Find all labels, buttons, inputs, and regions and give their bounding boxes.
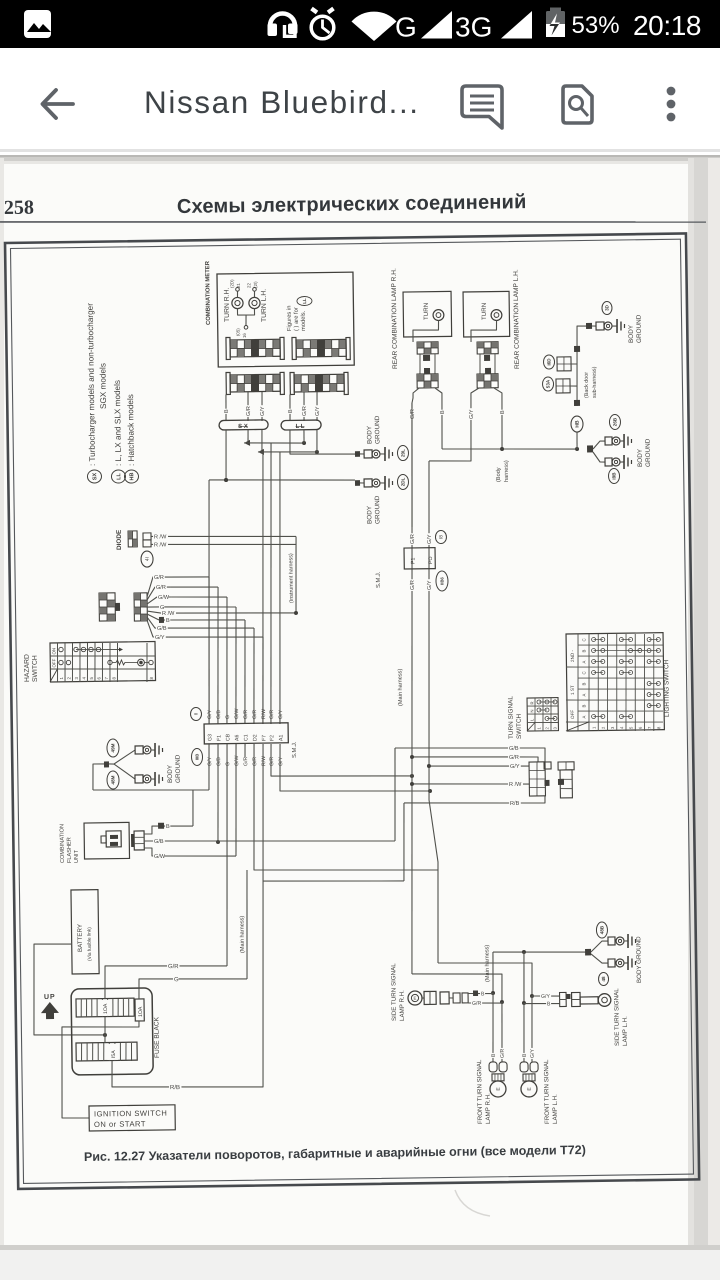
svg-text:G/B: G/B	[216, 710, 222, 720]
svg-text:49M: 49M	[110, 743, 115, 752]
connector oval SX	[219, 420, 268, 430]
app-bar back arrow	[43, 90, 74, 118]
wire F7 below SMJ (R/B run)	[261, 742, 404, 883]
svg-text:G/B: G/B	[509, 746, 519, 752]
app-bar title	[144, 84, 420, 121]
harness connector grid B	[294, 374, 344, 392]
svg-text:G/R: G/R	[246, 406, 252, 416]
svg-text:A6: A6	[234, 734, 240, 741]
diagram inner frame	[10, 239, 693, 1183]
svg-text:UNIT: UNIT	[74, 849, 80, 863]
svg-text:G/W: G/W	[234, 708, 240, 719]
page curl mark	[455, 1190, 490, 1216]
svg-text:G/R: G/R	[243, 709, 249, 719]
instrument harness wire 1	[259, 452, 267, 724]
svg-text:(Body: (Body	[496, 467, 502, 482]
svg-text:4: 4	[81, 676, 86, 679]
svg-text:B: B	[547, 1001, 551, 1007]
mid ground assembly lower	[135, 775, 143, 783]
combination flasher unit box	[84, 822, 129, 859]
wire G/Y rear LH	[428, 388, 480, 462]
svg-text:LL: LL	[302, 298, 307, 304]
instrument harness wire 2	[267, 443, 275, 724]
svg-text:F2: F2	[269, 735, 275, 741]
turn signal switch table	[527, 698, 558, 731]
svg-text:2: 2	[601, 726, 606, 729]
wire G/R (meter B)	[303, 392, 306, 421]
svg-text:A: A	[581, 694, 586, 697]
svg-text:G/R: G/R	[156, 585, 166, 591]
svg-text:21: 21	[236, 283, 241, 289]
svg-text:G: G	[225, 715, 231, 719]
fuse column (10A)	[135, 999, 144, 1021]
ignition feed wire	[61, 1021, 141, 1118]
ground bus wire y480	[209, 478, 355, 482]
svg-text:ON or START: ON or START	[94, 1119, 146, 1129]
svg-text:S.M.J.: S.M.J.	[292, 741, 298, 758]
svg-text:B: B	[581, 650, 586, 653]
svg-text:R/W: R/W	[261, 709, 267, 719]
flasher connector	[134, 831, 144, 850]
wire C1 below SMJ	[244, 744, 246, 757]
meter connector grid B	[296, 339, 346, 357]
svg-text:22: 22	[246, 283, 251, 289]
svg-text:CB: CB	[225, 733, 231, 741]
rear RH harness connector	[417, 374, 438, 388]
svg-text:2ND -: 2ND -	[570, 650, 575, 663]
wire A1 splice to main harness G/Y	[279, 742, 430, 793]
wire B rear LH	[494, 388, 503, 449]
svg-text:: Turbocharger models and non: : Turbocharger models and non-turbocharg…	[86, 303, 97, 466]
svg-text:B: B	[288, 409, 294, 413]
status-bar photo/gallery icon	[24, 10, 51, 38]
front turn signal lamp L.H. connector	[520, 1062, 528, 1072]
body harness ground bus	[442, 447, 577, 451]
lamp TURN R.H.	[232, 297, 243, 308]
svg-text:8: 8	[149, 676, 154, 679]
svg-text:(05): (05)	[235, 328, 240, 336]
side LH wire B	[524, 1002, 560, 1005]
svg-text:( ) are for: ( ) are for	[294, 307, 300, 331]
svg-text:TURN SIGNAL: TURN SIGNAL	[507, 696, 515, 740]
rear combination lamp L.H. box	[463, 291, 510, 337]
svg-text:(2D): (2D)	[229, 279, 234, 288]
fan corner drops into SMJ	[207, 577, 211, 724]
svg-text:(Via fusible link): (Via fusible link)	[87, 927, 93, 961]
front LH wire B	[523, 1003, 525, 1062]
svg-text:G/B: G/B	[154, 839, 164, 845]
LS contact circles	[592, 637, 596, 641]
side RH wire G/R	[468, 1002, 502, 1005]
svg-text:48: 48	[601, 976, 606, 982]
svg-text:IIB6: IIB6	[439, 576, 444, 584]
svg-text:BODY: BODY	[637, 448, 644, 467]
body ground right pair junction	[587, 445, 593, 452]
svg-text:SX: SX	[92, 472, 98, 480]
svg-text:G/B: G/B	[216, 757, 222, 767]
svg-text:G/Y: G/Y	[315, 406, 321, 416]
svg-text:(Main harness): (Main harness)	[239, 916, 246, 954]
svg-text:A: A	[581, 716, 586, 719]
fuse wire G/R	[105, 964, 228, 999]
back door harness wire	[576, 326, 590, 406]
lighting switch table	[566, 633, 664, 731]
svg-text:OFF: OFF	[51, 658, 56, 667]
pin B lower on back door wire	[574, 400, 580, 406]
svg-text:2: 2	[66, 677, 71, 680]
svg-text:TURN: TURN	[481, 303, 488, 320]
svg-text:53%: 53%	[572, 12, 620, 39]
front RH wire G/R	[501, 1002, 503, 1062]
svg-text:GROUND: GROUND	[374, 415, 381, 444]
wire G/Y to turn signal switch	[429, 765, 529, 768]
svg-text:E: E	[413, 996, 416, 1001]
bottom right ground fork	[585, 949, 591, 956]
svg-text:FLASHER: FLASHER	[67, 837, 73, 863]
status-bar signal triangle 2	[501, 11, 532, 39]
svg-text:I9B: I9B	[611, 472, 616, 480]
svg-text:G/Y: G/Y	[207, 709, 213, 719]
flasher wire G/W	[144, 847, 236, 858]
wire G/R from SX + splice arrow	[247, 430, 249, 443]
legend model code SX	[87, 470, 101, 483]
side RH B riser	[492, 952, 493, 993]
svg-text:Figures in: Figures in	[287, 306, 293, 332]
svg-text:8: 8	[656, 726, 661, 729]
svg-text:SWITCH: SWITCH	[32, 655, 39, 682]
wire D2 below SMJ (splice to G/Y main)	[252, 741, 438, 872]
rear RH lamp connector	[417, 342, 438, 354]
instrument harness R/W drop	[295, 536, 297, 613]
svg-text:B: B	[440, 410, 446, 414]
app-bar find-in-page icon	[563, 86, 592, 123]
svg-text:(Instrument harness): (Instrument harness)	[288, 553, 295, 603]
svg-text:G/R: G/R	[252, 710, 258, 720]
svg-text:BODY: BODY	[167, 764, 174, 783]
svg-text:B: B	[522, 1053, 528, 1057]
diode connector cells	[143, 533, 151, 540]
svg-text:1OA: 1OA	[138, 1006, 144, 1017]
fuse G riser	[245, 870, 248, 979]
svg-text:LAMP L.H.: LAMP L.H.	[622, 1016, 629, 1046]
wire G/Y (meter B)	[316, 392, 319, 421]
lamp TURN L.H.	[249, 297, 260, 308]
fork wires to right grounds	[593, 441, 605, 449]
svg-text:HB: HB	[575, 420, 581, 428]
svg-text:20:18: 20:18	[633, 10, 701, 41]
hatchback code HB on wire	[571, 416, 583, 432]
svg-text:C1: C1	[243, 734, 249, 741]
lamp bulb RH	[433, 310, 444, 321]
svg-text:2: 2	[544, 727, 549, 730]
hazard harness connector	[134, 593, 147, 621]
hazard resistor + lamp	[112, 661, 116, 663]
svg-text:BODY GROUND: BODY GROUND	[635, 936, 643, 983]
svg-text:B: B	[166, 824, 170, 830]
svg-text:G/Y: G/Y	[427, 580, 433, 590]
svg-text:258: 258	[4, 197, 34, 219]
svg-text:G/Y: G/Y	[541, 994, 551, 1000]
svg-text:I6D: I6D	[546, 358, 551, 366]
battery box	[71, 890, 99, 974]
svg-text:G/Y: G/Y	[260, 406, 266, 416]
svg-text:S.M.J.: S.M.J.	[376, 571, 382, 588]
back door connector 16D	[557, 357, 571, 371]
svg-text:FUSE BLACK: FUSE BLACK	[153, 1016, 161, 1058]
svg-text:B: B	[166, 618, 170, 624]
svg-text:2DL: 2DL	[400, 477, 405, 486]
bottom ground assembly lower	[608, 959, 615, 967]
lamp common wire	[237, 308, 254, 315]
svg-text:53A: 53A	[545, 379, 550, 388]
svg-text:G/Y: G/Y	[278, 709, 284, 719]
G/R corner to front RH	[412, 973, 502, 1004]
svg-text:: Hatchback models: : Hatchback models	[126, 394, 136, 466]
svg-text:LL: LL	[116, 472, 122, 479]
wire R/W diode 2	[151, 542, 296, 546]
SMJ pass-through box P1/P0	[404, 548, 435, 569]
svg-text:HAZARD: HAZARD	[24, 654, 31, 682]
legend model code HB	[124, 470, 138, 483]
svg-text:B: B	[224, 409, 230, 413]
wire B rear RH	[435, 388, 443, 449]
hazard fan wire G/R 2	[147, 587, 170, 600]
svg-text:G: G	[395, 12, 417, 43]
wire G/Y (meter A)	[261, 392, 264, 421]
svg-text:G/Y: G/Y	[510, 764, 520, 770]
ignition switch box	[89, 1105, 175, 1131]
svg-text:I8: I8	[439, 535, 445, 539]
wire B from SX	[225, 430, 226, 480]
svg-text:LAMP R.H.: LAMP R.H.	[399, 990, 406, 1021]
svg-text:G/W: G/W	[234, 755, 240, 766]
rear combination lamp R.H. box	[403, 291, 452, 337]
svg-text:G/Y: G/Y	[207, 756, 213, 766]
right ground assembly upper	[605, 437, 612, 445]
wire G CB below SMJ (to fuse G/R)	[224, 744, 230, 966]
svg-text:R /W: R /W	[154, 534, 167, 540]
svg-text:GROUND: GROUND	[645, 438, 652, 467]
svg-text:G/R: G/R	[500, 1048, 506, 1058]
rear LH harness connector	[477, 374, 498, 388]
svg-text:E: E	[527, 1087, 533, 1091]
svg-text:1 ST: 1 ST	[570, 685, 575, 695]
svg-text:G/R: G/R	[410, 534, 416, 544]
hazard table ON row contacts	[59, 647, 63, 651]
svg-text:GROUND: GROUND	[175, 754, 182, 783]
svg-text:7: 7	[647, 726, 652, 729]
svg-text:SGX models: SGX models	[98, 363, 108, 409]
svg-text:3: 3	[74, 676, 79, 679]
splice wire y443	[244, 442, 304, 444]
front LH wire G/Y	[531, 996, 533, 1062]
turn signal switch connector	[529, 762, 545, 796]
svg-text:B: B	[481, 991, 485, 997]
wire G/Y from SX + splice arrow	[261, 430, 264, 452]
fuse row 1 (10A)	[76, 998, 134, 1017]
right ground assembly lower	[605, 458, 612, 466]
flasher plug symbol	[106, 831, 121, 847]
ref oval 49M	[107, 739, 119, 757]
harness connector grid A	[230, 374, 280, 392]
svg-text:L: L	[529, 718, 534, 721]
svg-text:E: E	[496, 1087, 502, 1091]
ground bus bottom	[493, 951, 586, 954]
svg-text:SIDE TURN SIGNAL: SIDE TURN SIGNAL	[613, 988, 621, 1046]
svg-text:A: A	[582, 661, 587, 664]
wire G/R from LL	[303, 430, 305, 443]
svg-text:BATTERY: BATTERY	[77, 924, 84, 952]
svg-text:G/Y: G/Y	[530, 1048, 536, 1058]
svg-text:IGNITION SWITCH: IGNITION SWITCH	[94, 1109, 167, 1119]
body ground (upper left pair) assembly 1	[355, 451, 360, 457]
svg-text:G: G	[225, 762, 231, 766]
svg-text:sub-harness): sub-harness)	[592, 366, 598, 398]
flasher wire B	[144, 825, 193, 834]
meter connector grid A	[230, 339, 280, 357]
svg-text:(2I): (2I)	[253, 281, 258, 288]
svg-text:G/R: G/R	[252, 757, 258, 767]
svg-text:DIODE: DIODE	[116, 529, 123, 550]
svg-text:: L, LX and SLX models: : L, LX and SLX models	[113, 380, 123, 466]
svg-text:26B: 26B	[612, 417, 617, 426]
svg-text:BODY: BODY	[366, 505, 373, 524]
front RH bulb	[492, 1074, 504, 1081]
svg-text:P1: P1	[410, 558, 416, 565]
svg-text:G/Y: G/Y	[155, 635, 165, 641]
front RH wire B	[492, 993, 494, 1062]
R/B riser	[403, 803, 405, 881]
side LH wire G/Y	[532, 995, 560, 998]
svg-text:29L: 29L	[400, 449, 405, 457]
hazard fan wire G	[147, 606, 174, 609]
svg-text:IIIB: IIIB	[194, 754, 199, 761]
svg-text:models.: models.	[301, 310, 307, 331]
svg-text:G/R: G/R	[154, 575, 164, 581]
svg-text:G/R: G/R	[269, 756, 275, 766]
svg-text:GROUND: GROUND	[374, 495, 381, 524]
back door connector 53A	[556, 379, 570, 393]
svg-text:UP: UP	[44, 994, 56, 1001]
status-bar alarm clock icon	[311, 16, 334, 39]
svg-text:3: 3	[610, 726, 615, 729]
svg-text:R/B: R/B	[510, 801, 520, 807]
svg-text:N: N	[529, 709, 534, 712]
svg-text:G/R: G/R	[410, 580, 416, 590]
wire G/R to turn signal switch	[412, 755, 538, 764]
body ground (upper left pair) assembly 2	[355, 480, 360, 486]
svg-text:3D: 3D	[604, 304, 609, 311]
SMJ main connector box	[204, 723, 288, 744]
diagram outer frame	[5, 233, 699, 1188]
svg-text:II: II	[194, 713, 200, 716]
svg-text:G/R: G/R	[269, 709, 275, 719]
ref label 3D	[602, 301, 612, 314]
svg-text:A1: A1	[278, 734, 284, 741]
wire R/W to turn signal switch	[412, 782, 529, 785]
svg-text:F7: F7	[261, 735, 267, 741]
svg-text:G/R: G/R	[302, 406, 308, 416]
svg-text:G/R: G/R	[243, 756, 249, 766]
wire G3 drop	[206, 480, 213, 724]
svg-text:F1: F1	[216, 735, 222, 741]
rear LH lamp connector	[477, 342, 498, 354]
svg-text:REAR COMBINATION LAMP L.H.: REAR COMBINATION LAMP L.H.	[513, 269, 521, 369]
svg-text:5: 5	[628, 726, 633, 729]
ground fork bus to G3	[93, 788, 209, 791]
wire G/Y from LL	[316, 430, 319, 452]
svg-text:R /W: R /W	[509, 782, 522, 788]
svg-text:SIDE TURN SIGNAL: SIDE TURN SIGNAL	[390, 963, 398, 1021]
splice wire y452	[258, 451, 317, 453]
hazard fan wire G/W	[147, 597, 172, 604]
svg-text:G/R: G/R	[509, 755, 519, 761]
app-bar comment icon	[462, 86, 502, 128]
svg-text:4: 4	[619, 726, 624, 729]
hazard fan wire B	[147, 614, 159, 620]
svg-text:B: B	[581, 705, 586, 708]
G/B riser from flasher bus	[394, 748, 397, 841]
svg-text:LAMP R.H.: LAMP R.H.	[485, 1093, 492, 1124]
hazard switch table	[50, 642, 156, 682]
svg-text:(Back door: (Back door	[584, 372, 590, 398]
hazard fan wire G/B	[147, 617, 170, 629]
hazard fan wire G/Y	[147, 620, 168, 638]
fuse wire G	[139, 977, 248, 999]
svg-text:R/B: R/B	[170, 1085, 180, 1091]
svg-text:D2: D2	[252, 734, 258, 741]
bottom ground assembly upper	[608, 937, 615, 945]
svg-text:G/R: G/R	[410, 409, 416, 419]
ref oval 48M	[107, 771, 119, 789]
ref oval 11B	[191, 748, 202, 765]
ref circle 11	[190, 707, 201, 720]
svg-text:C: C	[581, 638, 586, 641]
hazard switch connector	[99, 593, 115, 621]
front LH bulb	[523, 1074, 535, 1081]
svg-text:B: B	[582, 683, 587, 686]
wire R/W diode 1	[151, 534, 296, 538]
svg-text:R /W: R /W	[154, 542, 167, 548]
side LH B riser	[523, 952, 524, 1003]
svg-text:GROUND: GROUND	[636, 314, 643, 343]
G/Y corner to front LH	[438, 962, 532, 998]
LS position dividers	[577, 634, 580, 731]
svg-text:G/Y: G/Y	[278, 756, 284, 766]
svg-text:G/R: G/R	[472, 1001, 482, 1007]
page left edge shading	[0, 158, 4, 1250]
svg-text:TURN L.H.: TURN L.H.	[261, 289, 268, 322]
wire G/W A6 below SMJ (to flasher G/W)	[234, 744, 237, 856]
wire B (meter B)	[289, 395, 292, 422]
hazard table OFF row contacts	[59, 660, 63, 664]
svg-text:G/Y: G/Y	[427, 534, 433, 544]
svg-text:48M: 48M	[110, 775, 115, 784]
svg-text:G/R: G/R	[168, 964, 179, 970]
ref oval 11B6	[436, 571, 448, 591]
svg-text:COMBINATION: COMBINATION	[59, 824, 66, 863]
page bottom edge shadow	[0, 1245, 720, 1250]
svg-text:8: 8	[111, 676, 116, 679]
fuse block box	[71, 988, 153, 1075]
body ground fork wire	[104, 761, 109, 767]
mid ground assembly upper	[135, 746, 143, 754]
svg-text:G/W: G/W	[154, 854, 166, 860]
svg-text:Схемы электрических соединен: Схемы электрических соединений	[177, 191, 527, 218]
svg-text:FRONT TURN SIGNAL: FRONT TURN SIGNAL	[543, 1059, 551, 1124]
page right edge shading	[688, 158, 720, 1250]
ref circle 41	[141, 551, 153, 567]
